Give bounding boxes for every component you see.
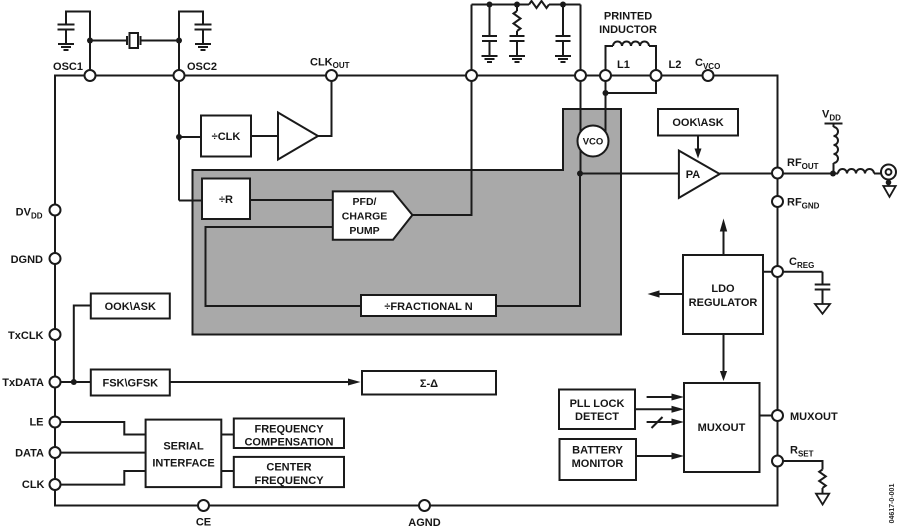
svg-text:PFD/: PFD/ — [353, 196, 377, 208]
svg-text:÷FRACTIONAL N: ÷FRACTIONAL N — [384, 301, 472, 313]
svg-text:LDO: LDO — [711, 283, 735, 295]
svg-text:OSC2: OSC2 — [187, 61, 217, 73]
svg-text:FSK\GFSK: FSK\GFSK — [102, 378, 158, 390]
svg-text:INDUCTOR: INDUCTOR — [599, 24, 657, 36]
svg-text:÷CLK: ÷CLK — [212, 131, 241, 143]
svg-text:PRINTED: PRINTED — [604, 11, 652, 23]
svg-text:CHARGE: CHARGE — [342, 211, 388, 223]
svg-text:DATA: DATA — [15, 448, 44, 460]
svg-text:FREQUENCY: FREQUENCY — [254, 424, 324, 436]
svg-text:PUMP: PUMP — [349, 225, 379, 237]
svg-text:OOK\ASK: OOK\ASK — [672, 117, 723, 129]
svg-text:BATTERY: BATTERY — [572, 445, 623, 457]
svg-text:L2: L2 — [669, 59, 682, 71]
svg-text:OOK\ASK: OOK\ASK — [105, 301, 156, 313]
svg-text:MUXOUT: MUXOUT — [790, 411, 838, 423]
svg-text:VCO: VCO — [583, 137, 604, 148]
svg-text:CENTER: CENTER — [266, 462, 311, 474]
svg-text:÷R: ÷R — [219, 194, 233, 206]
svg-text:Σ-Δ: Σ-Δ — [420, 378, 438, 390]
svg-text:OSC1: OSC1 — [53, 61, 83, 73]
svg-text:REGULATOR: REGULATOR — [689, 297, 758, 309]
svg-text:LE: LE — [29, 417, 43, 429]
svg-text:MUXOUT: MUXOUT — [698, 422, 746, 434]
svg-text:DGND: DGND — [11, 254, 43, 266]
svg-text:MONITOR: MONITOR — [572, 458, 624, 470]
svg-text:DETECT: DETECT — [575, 411, 619, 423]
svg-text:FREQUENCY: FREQUENCY — [254, 475, 324, 487]
svg-text:CE: CE — [196, 517, 211, 527]
svg-text:PA: PA — [686, 169, 701, 181]
svg-text:INTERFACE: INTERFACE — [152, 458, 214, 470]
svg-text:L1: L1 — [617, 59, 630, 71]
svg-text:TxCLK: TxCLK — [8, 330, 44, 342]
svg-text:CLK: CLK — [22, 479, 45, 491]
svg-text:04617-0-001: 04617-0-001 — [889, 484, 896, 524]
svg-text:AGND: AGND — [408, 517, 440, 527]
svg-text:SERIAL: SERIAL — [163, 441, 204, 453]
svg-text:COMPENSATION: COMPENSATION — [244, 437, 333, 449]
svg-text:PLL LOCK: PLL LOCK — [570, 398, 625, 410]
svg-text:TxDATA: TxDATA — [2, 377, 44, 389]
